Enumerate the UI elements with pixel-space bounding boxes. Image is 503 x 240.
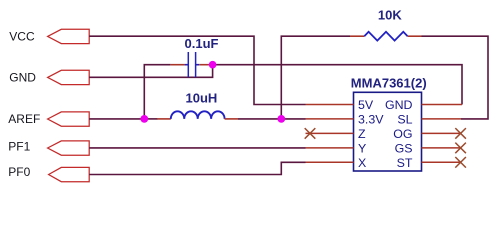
no-connect X on pin OG [455, 128, 466, 139]
resistor R1 10K [350, 7, 422, 40]
svg-text:SL: SL [397, 112, 412, 126]
wire PF1 net [89, 147, 305, 149]
svg-text:PF0: PF0 [8, 165, 30, 179]
svg-text:Y: Y [358, 141, 366, 155]
pin GND stub [422, 104, 463, 106]
svg-text:3.3V: 3.3V [358, 112, 384, 126]
pin ST stub [422, 161, 462, 163]
svg-text:AREF: AREF [8, 112, 40, 126]
connector GND [9, 70, 89, 84]
op-amp U1 MMA7361(2) body [351, 75, 427, 171]
connector PF1 [8, 140, 89, 156]
svg-text:GND: GND [385, 98, 413, 112]
pin OG stub [422, 132, 462, 134]
connector VCC [9, 29, 89, 43]
pin 5V stub [306, 104, 354, 106]
pin X stub [306, 161, 354, 163]
wire AREF net left [89, 65, 170, 119]
wire GND net [89, 65, 462, 105]
inductor L1 10uH [157, 90, 238, 119]
pin SL stub [422, 118, 462, 120]
junction node AREF / resistor / 3.3V [277, 115, 285, 123]
wire resistor top net [281, 36, 488, 119]
junction node AREF / capacitor left [140, 115, 148, 123]
svg-text:GND: GND [9, 71, 36, 85]
connector AREF [8, 112, 89, 126]
no-connect X on pin Z [305, 128, 316, 139]
wire AREF net right to 3.3V pin [238, 118, 306, 120]
pin Y stub [306, 147, 354, 149]
pin Z stub [306, 132, 354, 134]
svg-text:X: X [358, 156, 366, 170]
svg-text:5V: 5V [358, 98, 374, 112]
svg-text:PF1: PF1 [8, 140, 30, 154]
svg-text:10uH: 10uH [186, 90, 218, 105]
wire VCC net [89, 36, 305, 104]
svg-text:OG: OG [393, 127, 412, 141]
svg-text:MMA7361(2): MMA7361(2) [351, 75, 427, 90]
capacitor C1 0.1uF [170, 36, 218, 77]
svg-text:GS: GS [395, 141, 413, 155]
no-connect X on pin GS [455, 143, 466, 154]
pin 3.3V stub [306, 118, 354, 120]
svg-text:10K: 10K [378, 7, 402, 22]
no-connect X on pin ST [455, 157, 466, 168]
pin GS stub [422, 147, 462, 149]
junction node at capacitor right / GND net [209, 61, 217, 69]
svg-text:0.1uF: 0.1uF [185, 36, 219, 51]
svg-text:Z: Z [358, 127, 366, 141]
connector PF0 [8, 165, 89, 182]
wire PF0 net [89, 162, 305, 174]
svg-text:ST: ST [397, 156, 413, 170]
svg-text:VCC: VCC [9, 29, 35, 43]
